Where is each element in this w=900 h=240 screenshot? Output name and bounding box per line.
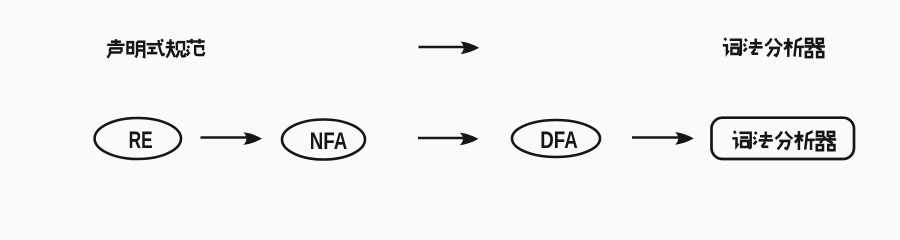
svg-text:NFA: NFA [310, 128, 347, 155]
label 词法分析器 (top) [723, 38, 825, 57]
node 词法分析器 (rounded box) [712, 118, 855, 159]
node RE (ellipse) [95, 118, 181, 159]
label 声明式规范 [107, 39, 205, 58]
arrow DFA to box [632, 136, 679, 139]
node NFA (ellipse) [282, 120, 365, 160]
label 词法分析器 (in box) [732, 131, 836, 150]
node DFA (ellipse) [512, 120, 600, 157]
arrow NFA to DFA [418, 137, 464, 140]
arrow top [419, 46, 465, 49]
arrow RE to NFA [201, 136, 248, 139]
svg-text:DFA: DFA [540, 127, 577, 154]
svg-text:RE: RE [129, 127, 153, 153]
